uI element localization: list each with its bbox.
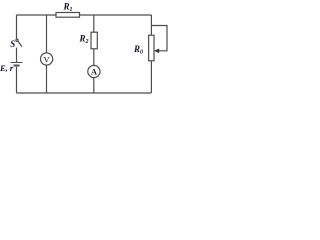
wire top from R1 to right corner bbox=[80, 14, 152, 16]
rheostat R0 box bbox=[149, 35, 154, 61]
svg-text:R2: R2 bbox=[79, 34, 89, 46]
wire switch to battery bbox=[16, 48, 18, 62]
battery E,r plates bbox=[11, 63, 23, 66]
wire bottom bbox=[17, 92, 152, 94]
wire battery to bottom corner bbox=[16, 67, 18, 93]
wire R0 to bottom corner bbox=[150, 61, 152, 93]
svg-text:S: S bbox=[10, 39, 15, 49]
resistor R2 box bbox=[91, 32, 97, 49]
wire left upper (corner to switch) bbox=[16, 15, 18, 39]
ammeter A circle bbox=[88, 65, 100, 77]
wire voltmeter branch upper bbox=[46, 15, 48, 53]
svg-text:A: A bbox=[91, 67, 98, 77]
wire top from left corner to R1 bbox=[17, 14, 57, 16]
svg-text:V: V bbox=[44, 54, 51, 64]
voltmeter V circle bbox=[41, 53, 53, 65]
wire voltmeter branch lower bbox=[46, 65, 48, 93]
svg-text:R1: R1 bbox=[63, 1, 73, 13]
svg-text:E, r: E, r bbox=[0, 63, 14, 73]
wire R2 to ammeter bbox=[93, 49, 95, 66]
wire rheostat slider tap bbox=[151, 26, 167, 51]
resistor R1 box bbox=[56, 13, 80, 18]
switch S blade bbox=[16, 39, 22, 46]
rheostat slider arrowhead bbox=[154, 49, 159, 54]
svg-text:R0: R0 bbox=[133, 44, 143, 56]
wire middle branch upper bbox=[93, 15, 95, 32]
wire ammeter to bottom bbox=[93, 78, 95, 93]
wire right upper (corner to R0) bbox=[150, 15, 152, 35]
